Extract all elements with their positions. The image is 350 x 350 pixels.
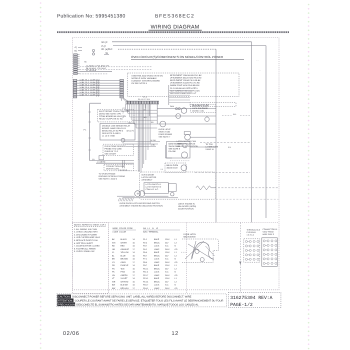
svg-text:16: 16: [133, 245, 135, 248]
wire N dashed: [118, 48, 216, 50]
svg-text:7. DOOR MUST BE CLOSED: 7. DOOR MUST BE CLOSED: [74, 245, 100, 248]
svg-text:N.C.: N.C.: [165, 271, 169, 274]
svg-text:BW: BW: [112, 284, 115, 287]
svg-text:16: 16: [133, 271, 135, 274]
lower ladder wires: [123, 140, 161, 142]
wire door lock: [157, 108, 216, 110]
svg-text:120V: 120V: [165, 251, 170, 254]
svg-text:RR ELEMENT 1250W P5-3 OR-BK: RR ELEMENT 1250W P5-3 OR-BK: [170, 79, 201, 82]
svg-text:P10-1: P10-1: [143, 267, 148, 270]
sub connector box: [190, 103, 236, 107]
svg-text:4. USE COPPER WIRE ONLY: 4. USE COPPER WIRE ONLY: [74, 236, 101, 239]
svg-text:PURPLE: PURPLE: [121, 264, 129, 267]
svg-text:BAKE: BAKE: [154, 277, 160, 280]
strip riser: [156, 104, 158, 124]
svg-text:P3-7: P3-7: [143, 245, 147, 248]
svg-text:8 6 4: 8 6 4: [143, 96, 147, 99]
strip drop bundle: [126, 104, 158, 172]
terminal block box: [104, 164, 134, 170]
svg-text:15: 15: [133, 280, 135, 283]
svg-text:VIOLET: VIOLET: [121, 277, 129, 280]
svg-text:DOOR POSITION: DOOR POSITION: [178, 208, 194, 211]
svg-text:N.C.: N.C.: [165, 284, 169, 287]
svg-text:WIRING DIAGRAM: WIRING DIAGRAM: [151, 25, 200, 31]
svg-text:P1-1: P1-1: [143, 238, 147, 241]
latch wires: [117, 195, 135, 197]
svg-text:N0 (C: N0 (C: [102, 41, 108, 44]
svg-text:15: 15: [133, 267, 135, 270]
svg-text:17: 17: [133, 248, 135, 251]
svg-text:15: 15: [133, 254, 135, 257]
svg-text:SEE NOTE 7: SEE NOTE 7: [159, 136, 172, 139]
wire oven light: [157, 123, 216, 125]
table rows: [112, 238, 178, 290]
terminal grid left: [244, 239, 260, 262]
svg-text:L1: L1: [175, 238, 177, 241]
svg-text:3C 10 RD-8: 3C 10 RD-8: [86, 69, 96, 72]
svg-text:P15-7: P15-7: [143, 284, 148, 287]
svg-text:ASSEMBLY SHOWN IN UNLOCKED POS: ASSEMBLY SHOWN IN UNLOCKED POSITION: [120, 205, 164, 208]
label rows from connector: [80, 66, 152, 68]
svg-text:SEE NOTE 1 AND 2: SEE NOTE 1 AND 2: [99, 177, 118, 180]
svg-text:L2: L2: [175, 241, 177, 244]
svg-text:9. CHECK SPARK GAP: 9. CHECK SPARK GAP: [74, 250, 95, 253]
svg-text:N.C.: N.C.: [165, 258, 169, 261]
attention row: [57, 299, 73, 303]
mechanism stub: [181, 251, 187, 253]
svg-text:L1: L1: [175, 251, 177, 254]
oven light: [160, 121, 166, 127]
svg-text:ASSEMBLY: ASSEMBLY: [142, 178, 154, 181]
double dashed rule: [57, 31, 289, 33]
svg-text:RED-WH: RED-WH: [121, 287, 130, 290]
diagram dashed border: [72, 38, 279, 290]
notes rows: [74, 228, 101, 253]
svg-text:- -: - -: [257, 60, 259, 62]
svg-text:GRAY: GRAY: [121, 261, 127, 264]
svg-text:PAGE-1/2: PAGE-1/2: [230, 302, 253, 308]
svg-text:COUPER LE COURANT AVANT DE FAI: COUPER LE COURANT AVANT DE FAIRE LE SERV…: [75, 300, 224, 303]
svg-text:BAKE: BAKE: [154, 251, 160, 254]
svg-text:120V: 120V: [165, 264, 170, 267]
svg-text:17: 17: [133, 274, 135, 277]
svg-text:P7-1: P7-1: [143, 258, 147, 261]
svg-text:12: 12: [172, 331, 179, 337]
svg-text:BROIL: BROIL: [154, 267, 161, 270]
connector strip P9: [126, 101, 159, 104]
svg-text:15: 15: [133, 241, 135, 244]
broil element symbol: [181, 165, 187, 171]
svg-text:LOCK: LOCK: [154, 271, 160, 274]
svg-text:P9-7: P9-7: [143, 264, 147, 267]
mechanism pivot circle: [195, 249, 199, 253]
svg-text:LOCK: LOCK: [154, 284, 160, 287]
svg-text:14 BL: 14 BL: [151, 144, 156, 147]
door lock motor: [181, 108, 187, 114]
svg-text:WARM ZONE 100W P5-5 BR-WH: WARM ZONE 100W P5-5 BR-WH: [170, 84, 200, 87]
harness wires: [77, 78, 120, 96]
svg-text:P13-1: P13-1: [143, 277, 148, 280]
svg-text:240V: 240V: [165, 287, 170, 290]
svg-text:WIRE COLOR CODE: WIRE COLOR CODE: [113, 227, 134, 230]
svg-text:PINK: PINK: [121, 271, 126, 274]
precaucion row: [57, 302, 75, 306]
svg-text:TAN: TAN: [121, 267, 125, 270]
dashed drop left: [138, 145, 140, 160]
svg-text:240V: 240V: [165, 248, 170, 251]
svg-text:LOCK: LOCK: [154, 258, 160, 261]
svg-text:(+): (+): [92, 158, 95, 161]
svg-text:ATTENTION:: ATTENTION:: [58, 300, 73, 303]
left riser wire: [89, 103, 91, 160]
hatch ticks: [118, 198, 133, 201]
bake element symbol: [181, 152, 187, 158]
svg-text:17: 17: [133, 261, 135, 264]
svg-text:P8-4 BK: P8-4 BK: [169, 150, 177, 153]
table separator left: [107, 223, 109, 294]
notes dashed box: [72, 223, 108, 294]
fuse F1: [92, 49, 94, 51]
svg-text:16: 16: [133, 258, 135, 261]
wire cooling fan: [157, 115, 216, 117]
svg-text:B): B): [75, 49, 77, 52]
wires below sensor: [90, 160, 134, 162]
table separator right: [186, 223, 188, 294]
svg-text:HOT SURFACE IND LAMPS 240V: HOT SURFACE IND LAMPS 240V: [170, 89, 200, 92]
latch aux box: [169, 184, 177, 192]
svg-text:CODE COLOR: CODE COLOR: [113, 231, 127, 234]
svg-text:L2: L2: [175, 280, 177, 283]
svg-text:A): A): [75, 46, 77, 49]
svg-text:240V: 240V: [165, 261, 170, 264]
svg-text:OVEN CIRCUIT(S)/COMPONENTS ON: OVEN CIRCUIT(S)/COMPONENTS ON MODEL/CONT…: [131, 55, 224, 59]
svg-text:GREEN: GREEN: [121, 274, 128, 277]
svg-text:LAMP: LAMP: [154, 274, 160, 277]
svg-text:CAUTION:: CAUTION:: [58, 296, 70, 299]
latch assembly dashed box: [139, 172, 216, 199]
harness connector left: [73, 79, 77, 98]
svg-text:3. DISCONNECT POWER: 3. DISCONNECT POWER: [74, 233, 97, 236]
element labels right: [170, 74, 202, 95]
element box riser: [168, 85, 170, 105]
svg-text:L1 L2 N GND: L1 L2 N GND: [102, 134, 115, 137]
svg-text:DISCONNECT POWER BEFORE SERVIC: DISCONNECT POWER BEFORE SERVICING UNIT. …: [72, 296, 191, 299]
svg-text:RED: RED: [121, 245, 126, 248]
svg-text:316275304 REV:A: 316275304 REV:A: [230, 295, 272, 301]
wire L2: [113, 45, 266, 47]
pilot lamp: [121, 138, 125, 142]
svg-text:120V: 120V: [165, 238, 170, 241]
svg-text:L1: L1: [175, 277, 177, 280]
wavy net 1: [200, 141, 250, 143]
bake element box: [167, 142, 191, 159]
svg-text:Publication No: 5995451380: Publication No: 5995451380: [57, 14, 126, 20]
mechanism cam body: [192, 242, 214, 259]
svg-text:BAKE: BAKE: [154, 238, 160, 241]
cooling fan motor: [176, 114, 181, 119]
harness mid ticks: [97, 80, 99, 97]
oven sensor box: [103, 144, 134, 155]
harness drop wires: [121, 98, 123, 101]
svg-text:2 1: 2 1: [161, 168, 164, 171]
svg-text:WH-4 P3: WH-4 P3: [127, 130, 134, 133]
section divider dashed: [72, 222, 279, 224]
svg-text:P9 1 3 5 7 9 11: P9 1 3 5 7 9 11: [138, 98, 150, 101]
svg-text:N.C.: N.C.: [165, 245, 169, 248]
svg-text:16: 16: [133, 284, 135, 287]
svg-text:P4 SEE NOTE 5: P4 SEE NOTE 5: [132, 82, 148, 85]
svg-text:L2: L2: [175, 254, 177, 257]
svg-text:BROIL: BROIL: [154, 254, 161, 257]
svg-text:SEE NOTE 6 AND NOTE 9 LT: SEE NOTE 6 AND NOTE 9 LT: [170, 92, 197, 95]
svg-text:DLM: DLM: [170, 105, 174, 108]
latch motor symbol: [184, 132, 190, 135]
wavy net 4: [216, 198, 279, 200]
svg-text:DESCONECTE EL SUMINISTRO ANTES: DESCONECTE EL SUMINISTRO ANTES DE DAR MA…: [76, 303, 199, 306]
dashed connector row: [118, 170, 139, 172]
svg-text:2. CHECK GROUND PATH: 2. CHECK GROUND PATH: [74, 231, 98, 234]
svg-text:COM N.O. N.C.: COM N.O. N.C.: [146, 188, 160, 191]
wire L1: [112, 41, 252, 43]
svg-text:1. ALL WIRING 105 C MIN: 1. ALL WIRING 105 C MIN: [74, 228, 98, 231]
bus L2 vertical: [265, 46, 267, 218]
svg-text:3600W 240V: 3600W 240V: [167, 166, 179, 169]
connector P1 stack: [74, 54, 80, 75]
svg-text:L2: L2: [175, 267, 177, 270]
svg-text:P12-7: P12-7: [143, 274, 148, 277]
svg-text:1 2 3 4 5 6: 1 2 3 4 5 6: [119, 169, 128, 172]
svg-text:9 AND 10: 9 AND 10: [206, 148, 214, 151]
svg-text:8. TIGHTEN ALL TERMS: 8. TIGHTEN ALL TERMS: [74, 247, 96, 250]
svg-text:P 1: P 1: [84, 129, 87, 132]
svg-text:LAMP: LAMP: [154, 287, 160, 290]
svg-text:RW: RW: [112, 287, 115, 290]
svg-text:BROIL: BROIL: [154, 280, 161, 283]
wire row: [80, 71, 112, 73]
svg-text:GA L1 N L2: GA L1 N L2: [143, 227, 159, 230]
small junction box: [99, 156, 104, 160]
svg-text:6. SEE TECH SHEET: 6. SEE TECH SHEET: [74, 242, 94, 245]
perforation dots right: [308, 4, 310, 350]
bus N vertical: [215, 49, 217, 222]
svg-text:P6-7: P6-7: [143, 254, 147, 257]
svg-text:SEE CHART: SEE CHART: [105, 152, 117, 155]
harness connector right: [120, 79, 124, 98]
svg-text:BROWN: BROWN: [121, 258, 129, 261]
svg-text:L1: L1: [175, 264, 177, 267]
wavy net 3: [218, 187, 279, 189]
svg-text:LAMP: LAMP: [154, 248, 160, 251]
svg-text:BLUE: BLUE: [121, 254, 127, 257]
svg-text:(-) 16 RD: (-) 16 RD: [98, 161, 106, 164]
revision box: [228, 293, 281, 308]
svg-text:LR ELEMENT 2000W P5-4 YL-RD: LR ELEMENT 2000W P5-4 YL-RD: [170, 82, 200, 85]
wavy net 2: [195, 171, 250, 173]
surface elements dashed box: [128, 73, 240, 97]
caution banner box: [57, 294, 227, 307]
aux motor symbol: [205, 117, 209, 121]
element stub wires: [169, 90, 190, 102]
svg-text:R1 (a)PbC: R1 (a)PbC: [102, 48, 113, 51]
svg-text:RF ELEMENT 1250/3000W P5-1 BK: RF ELEMENT 1250/3000W P5-1 BK: [170, 74, 202, 77]
svg-text:P5 CONN BK-WH SEE NOTE 5: P5 CONN BK-WH SEE NOTE 5: [170, 87, 198, 90]
svg-text:LF ELEMENT 1800/2700W P5-2 RD: LF ELEMENT 1800/2700W P5-2 RD: [170, 77, 202, 80]
svg-text:P4-1: P4-1: [143, 248, 147, 251]
bus L1 vertical: [251, 42, 253, 223]
mechanism box: [182, 239, 219, 262]
caution row: [57, 295, 71, 299]
broil element box: [165, 163, 186, 172]
svg-text:16 OR: 16 OR: [151, 139, 157, 142]
EOC dashed box: [98, 110, 135, 122]
svg-text:WIRE SIDE 2: WIRE SIDE 2: [263, 233, 274, 236]
latch switch box: [144, 183, 168, 194]
wire to elements: [165, 145, 167, 158]
svg-text:ORANGE: ORANGE: [121, 248, 130, 251]
svg-text:LAMP: LAMP: [154, 261, 160, 264]
svg-text:WHITE: WHITE: [121, 241, 128, 244]
svg-text:LOCK: LOCK: [154, 245, 160, 248]
svg-text:240V: 240V: [165, 274, 170, 277]
svg-text:02/06: 02/06: [63, 331, 80, 337]
svg-text:PRECAUCION:: PRECAUCION:: [58, 303, 76, 306]
svg-text:WHT-RD: WHT-RD: [121, 280, 129, 283]
relay box K1: [100, 124, 135, 141]
mechanism linkage: [185, 241, 204, 259]
svg-text:P (C: P (C: [102, 45, 107, 48]
svg-text:1 2 3 4 A: 1 2 3 4 A: [247, 233, 255, 236]
mechanism roller: [200, 258, 204, 262]
terminal grid right: [262, 238, 278, 266]
small element circle: [183, 143, 187, 147]
svg-text:120VAC COIL: 120VAC COIL: [192, 110, 205, 113]
magnetic lock label box: [191, 104, 216, 112]
latch motor: [135, 191, 141, 197]
svg-text:MECHANISM: MECHANISM: [184, 235, 196, 238]
svg-text:P16-1: P16-1: [143, 287, 148, 290]
svg-text:YELLOW: YELLOW: [121, 251, 129, 254]
resistor: [196, 186, 211, 190]
svg-text:5. REPLACE FUSE F1 15A: 5. REPLACE FUSE F1 15A: [74, 239, 98, 242]
svg-text:BLACK: BLACK: [121, 238, 128, 241]
svg-text:BFES368EC2: BFES368EC2: [155, 14, 195, 20]
svg-text:BLK-WH: BLK-WH: [121, 284, 129, 287]
svg-text:BROIL: BROIL: [154, 241, 161, 244]
svg-text:RELAY OUTPUTS K1-K5: RELAY OUTPUTS K1-K5: [99, 118, 123, 121]
perforation dots left: [40, 2, 42, 349]
svg-text:17: 17: [133, 287, 135, 290]
svg-text:120V: 120V: [165, 277, 170, 280]
svg-text:AWG TERMINAL: AWG TERMINAL: [143, 231, 159, 234]
svg-text:BAKE: BAKE: [154, 264, 160, 267]
rev leader line: [239, 223, 241, 294]
svg-text:NOTES: REFER TO SHEET 2 OF 2: NOTES: REFER TO SHEET 2 OF 2: [74, 223, 107, 226]
svg-text:MOTOR 120V: MOTOR 120V: [106, 168, 120, 171]
